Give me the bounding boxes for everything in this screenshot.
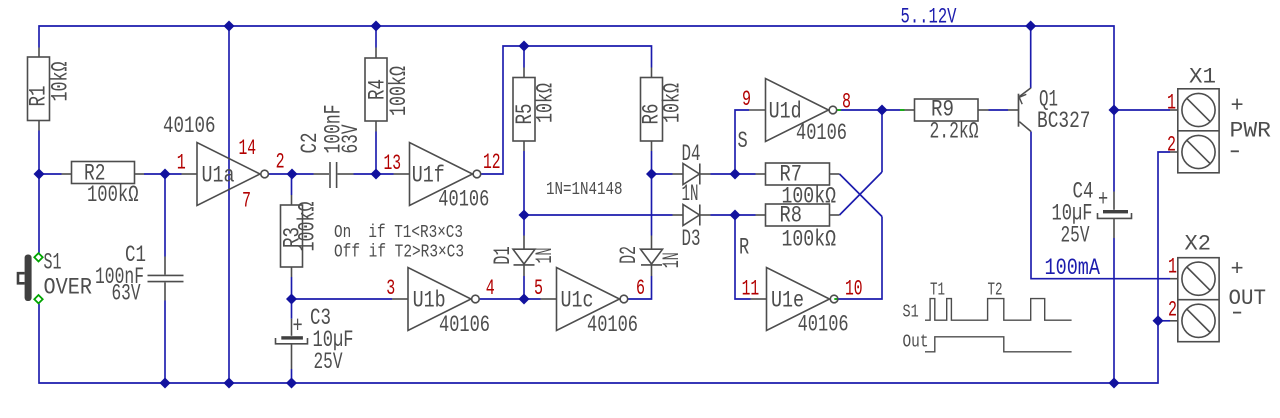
svg-text:X2: X2 — [1185, 232, 1212, 257]
junction node 1 at R1/R2/S1 — [34, 169, 45, 180]
wire diagonal R7 right to U1e output column — [840, 174, 883, 217]
wire C4 bottom to GND rail — [1113, 238, 1115, 383]
op-amp gate U1a (40106 inverter) — [182, 143, 269, 206]
junction GND at C3 — [286, 378, 297, 389]
junction node 2 at R3 — [287, 169, 298, 180]
svg-text:40106: 40106 — [798, 312, 849, 338]
capacitor C1 — [148, 257, 184, 301]
resistor R9 — [905, 99, 989, 121]
diode D4 — [673, 164, 711, 185]
junction GND at C4 — [1109, 378, 1120, 389]
svg-text:8: 8 — [842, 89, 851, 115]
svg-text:U1e: U1e — [771, 288, 804, 314]
svg-text:C2: C2 — [298, 133, 324, 154]
S1 pin green terminal bottom — [34, 295, 42, 303]
svg-text:S1: S1 — [903, 301, 919, 322]
svg-text:Off if T2>R3×C3: Off if T2>R3×C3 — [334, 241, 464, 262]
svg-text:40106: 40106 — [439, 313, 490, 339]
svg-text:1N: 1N — [533, 248, 559, 264]
svg-text:13: 13 — [384, 150, 402, 176]
wire C3 top lead — [291, 299, 293, 319]
junction node R — [730, 210, 741, 221]
wire GND bottom rail — [39, 304, 1158, 383]
junction top rail at R4 — [371, 21, 382, 32]
svg-text:40106: 40106 — [438, 187, 489, 213]
wire R5 top lead drop — [523, 46, 525, 68]
wire U1e output up the cross-coupling column — [838, 217, 882, 300]
svg-text:6: 6 — [636, 275, 645, 301]
junction GND at C1 — [160, 378, 171, 389]
wire D3 cathode to node R — [711, 214, 756, 216]
resistor R1 — [28, 48, 50, 131]
svg-text:100kΩ: 100kΩ — [387, 66, 413, 116]
svg-text:U1f: U1f — [412, 163, 445, 189]
svg-text:2: 2 — [1167, 132, 1176, 158]
resistor R5 — [513, 68, 535, 152]
svg-text:25V: 25V — [314, 350, 343, 376]
svg-text:+: + — [293, 314, 303, 340]
svg-text:40106: 40106 — [796, 121, 847, 147]
wire node 4/5: U1b output to U1c input — [479, 298, 540, 300]
wire VCC drop to R4 top — [375, 26, 377, 48]
wire VCC vertical through U1a (pins 14/7 supply) — [228, 26, 230, 383]
op-amp gate U1b (40106 inverter) — [392, 268, 479, 331]
svg-text:1: 1 — [177, 150, 186, 176]
svg-text:25V: 25V — [1061, 223, 1090, 249]
svg-text:OVER: OVER — [44, 275, 93, 301]
op-amp gate U1f (40106 inverter) — [394, 143, 481, 206]
X2 minus sign — [1233, 312, 1241, 314]
svg-text:4: 4 — [486, 275, 495, 301]
svg-text:S: S — [738, 129, 748, 155]
junction top rail at Q1 emitter — [1025, 21, 1036, 32]
wire X1 pin 2 down to X2 pin 2 — [1158, 152, 1170, 321]
wire D4 cathode to node S — [711, 173, 756, 175]
svg-text:2: 2 — [1168, 297, 1177, 323]
wire R5 bottom through node R to D1 — [523, 151, 525, 236]
pin remnant green tick U1e output — [834, 298, 838, 300]
svg-text:40106: 40106 — [587, 313, 638, 339]
op-amp gate U1c (40106 inverter) — [541, 268, 628, 331]
svg-text:5: 5 — [534, 275, 543, 301]
svg-text:S1: S1 — [44, 250, 62, 276]
junction X1 pin1 at VCC column — [1109, 105, 1120, 116]
svg-text:BC327: BC327 — [1037, 109, 1091, 135]
resistor R3 — [281, 195, 303, 277]
wire R row horizontal: R5 bottom to D3 anode — [524, 214, 673, 216]
svg-text:100kΩ: 100kΩ — [782, 227, 837, 253]
wire C1 top branch — [164, 174, 166, 257]
svg-text:+: + — [1098, 187, 1108, 213]
svg-text:1N=1N4148: 1N=1N4148 — [546, 178, 623, 199]
svg-text:7: 7 — [242, 188, 251, 214]
svg-text:D3: D3 — [682, 227, 701, 253]
svg-text:OUT: OUT — [1229, 286, 1267, 311]
wire node 12: U1f output up and over to R5/R6 tops — [481, 46, 652, 174]
wire node 13: C2 right / R4 bottom / U1f input — [354, 173, 394, 175]
wire node 2: U1a output to C2 and R3 — [269, 173, 314, 175]
svg-text:U1b: U1b — [413, 288, 446, 314]
junction node 3 at R3/C3 — [286, 294, 297, 305]
svg-text:100mA: 100mA — [1045, 256, 1101, 282]
svg-text:10kΩ: 10kΩ — [48, 62, 74, 102]
svg-text:2.2kΩ: 2.2kΩ — [930, 119, 979, 145]
svg-text:3: 3 — [386, 275, 395, 301]
X1 minus sign — [1231, 150, 1239, 152]
svg-text:U1c: U1c — [561, 288, 594, 314]
pin remnant green tick U1d output — [837, 109, 841, 111]
svg-text:D1: D1 — [491, 246, 517, 264]
wire R9 right to Q1 base — [989, 109, 1009, 111]
junction R row at R5/D1 — [519, 210, 530, 221]
wire S row: R6 bottom node to D4 anode — [652, 173, 673, 175]
svg-text:D4: D4 — [682, 142, 701, 168]
svg-text:R8: R8 — [780, 203, 803, 229]
wire node 1: R1 bottom / R2 left / S1 top — [38, 131, 40, 175]
wire X2 pin 2 stub — [1158, 320, 1170, 322]
wire VCC top rail — [39, 26, 1114, 192]
svg-text:Out: Out — [903, 331, 929, 352]
svg-text:100kΩ: 100kΩ — [87, 183, 139, 209]
diode D3 — [673, 205, 711, 226]
wire node 8: U1d output to R9 — [841, 109, 900, 111]
op-amp gate U1e (40106 inverter) — [751, 268, 838, 331]
svg-text:10kΩ: 10kΩ — [660, 83, 686, 123]
svg-text:U1a: U1a — [202, 163, 235, 189]
wire C1 bottom to GND — [164, 301, 166, 384]
wire R3 top branch — [291, 174, 293, 195]
capacitor C2 — [314, 162, 354, 188]
svg-text:+: + — [1231, 94, 1244, 119]
capacitor C4 (electrolytic) — [1098, 192, 1132, 239]
junction node 5 at D1 — [519, 294, 530, 305]
junction node 8 — [877, 105, 888, 116]
wire node 3 to U1b input — [292, 298, 393, 300]
resistor R8 — [756, 204, 840, 226]
svg-text:12: 12 — [483, 149, 501, 175]
svg-text:10kΩ: 10kΩ — [533, 83, 559, 123]
wire D2 bottom to U1c output — [628, 276, 652, 299]
wire X1 pin 1 from VCC column — [1114, 109, 1170, 111]
svg-text:PWR: PWR — [1230, 119, 1272, 144]
op-amp gate U1d (40106 inverter) — [749, 79, 837, 142]
svg-text:1: 1 — [1167, 90, 1176, 116]
diode D2 — [641, 236, 663, 277]
pin remnant green tick R9 left — [900, 109, 905, 111]
svg-text:40106: 40106 — [163, 114, 216, 140]
junction node S — [730, 169, 741, 180]
wire node 1: R2 right to U1a input, C1 tap — [144, 173, 182, 175]
svg-text:1: 1 — [1168, 254, 1177, 280]
svg-text:2: 2 — [276, 149, 285, 175]
svg-text:5..12V: 5..12V — [901, 4, 957, 29]
svg-text:T2: T2 — [988, 279, 1003, 300]
svg-text:100kΩ: 100kΩ — [295, 202, 321, 252]
svg-text:D2: D2 — [617, 246, 643, 264]
junction node 1 at C1 — [160, 169, 171, 180]
resistor R4 — [365, 48, 387, 132]
S1 pin green terminal top — [34, 253, 42, 261]
svg-text:11: 11 — [742, 276, 760, 302]
resistor R7 — [756, 163, 840, 185]
svg-text:63V: 63V — [339, 125, 365, 154]
junction node 13 at R4 — [371, 169, 382, 180]
wire Q1 emitter to VCC — [1030, 26, 1032, 88]
svg-text:9: 9 — [742, 86, 751, 112]
switch S1 (pushbutton) — [18, 255, 32, 302]
waveform S1 trace — [925, 299, 1072, 321]
wire R3 bottom to node 3 — [291, 277, 293, 299]
junction top rail at U1a supply — [224, 21, 235, 32]
svg-text:1N: 1N — [660, 252, 686, 268]
wire R6 bottom down through S row crossing to D2 — [651, 151, 653, 236]
transistor Q1 (PNP BC327) — [1008, 88, 1031, 132]
resistor R6 — [641, 68, 663, 152]
wire node 8 down to cross-coupling — [881, 110, 883, 172]
resistor R2 — [62, 162, 145, 184]
waveform Out trace — [925, 337, 1072, 352]
svg-text:14: 14 — [239, 135, 257, 161]
wire diagonal node 8 to R8 right — [840, 172, 883, 215]
svg-text:R: R — [739, 235, 749, 261]
svg-text:63V: 63V — [112, 281, 141, 307]
svg-text:On if T1<R3×C3: On if T1<R3×C3 — [334, 221, 463, 242]
junction GND at U1a supply column — [224, 378, 235, 389]
wire node S up to U1d pin 9 — [735, 110, 749, 174]
svg-text:10: 10 — [845, 276, 863, 302]
svg-text:1N: 1N — [682, 182, 699, 208]
svg-text:T1: T1 — [930, 279, 945, 300]
terminal block X1 — [1170, 89, 1219, 173]
wire node R down to U1e pin 11 — [735, 215, 751, 299]
terminal block X2 — [1170, 258, 1219, 342]
svg-text:+: + — [1231, 257, 1244, 282]
junction node 12 at R5 top — [519, 41, 530, 52]
wire D1 bottom to node 5 — [523, 276, 525, 299]
svg-text:X1: X1 — [1189, 65, 1216, 90]
diode D1 — [513, 236, 535, 277]
capacitor C3 (electrolytic) — [276, 319, 308, 369]
wire C3 bottom to GND — [291, 369, 293, 383]
junction X2 pin 2 — [1153, 315, 1164, 326]
junction S row at R6 — [646, 169, 657, 180]
wire Q1 collector down and right to X2 pin 1 — [1031, 132, 1170, 279]
